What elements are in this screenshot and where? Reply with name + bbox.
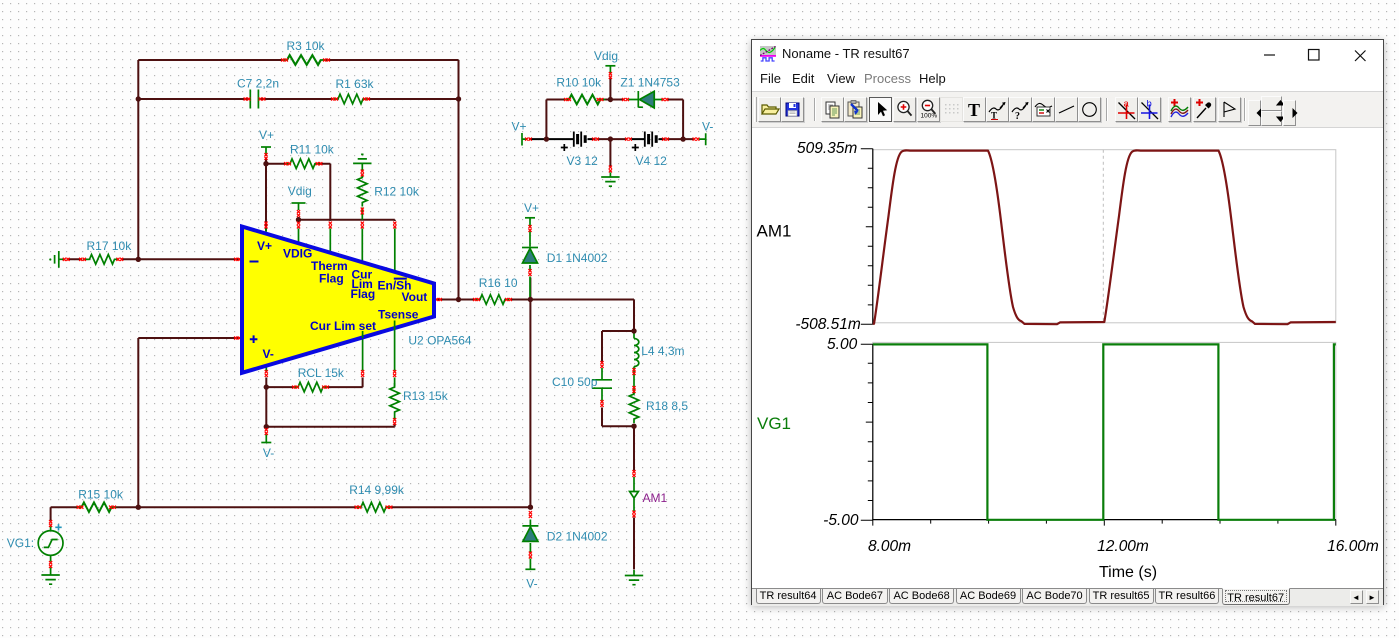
svg-text:AM1: AM1	[643, 491, 668, 505]
svg-text:Z1 1N4753: Z1 1N4753	[620, 76, 680, 90]
svg-text:Vdig: Vdig	[594, 49, 618, 63]
svg-text:8.00m: 8.00m	[868, 538, 911, 555]
svg-text:Tsense: Tsense	[378, 308, 419, 322]
svg-text:R16 10: R16 10	[479, 276, 518, 290]
svg-text:D1 1N4002: D1 1N4002	[547, 251, 608, 265]
svg-text:R3 10k: R3 10k	[287, 39, 326, 53]
svg-text:5.00: 5.00	[827, 336, 858, 353]
svg-text:Flag: Flag	[319, 272, 344, 286]
svg-text:R14 9,99k: R14 9,99k	[349, 483, 405, 497]
svg-text:R18 8,5: R18 8,5	[646, 399, 688, 413]
svg-text:R17 10k: R17 10k	[87, 239, 133, 253]
svg-text:V3 12: V3 12	[567, 154, 599, 168]
svg-text:V+: V+	[512, 119, 527, 133]
svg-text:509.35m: 509.35m	[797, 140, 857, 157]
svg-text:RCL 15k: RCL 15k	[298, 366, 345, 380]
svg-text:R15 10k: R15 10k	[78, 487, 124, 501]
svg-text:V-: V-	[702, 119, 713, 133]
svg-text:Time (s): Time (s)	[1099, 564, 1157, 581]
svg-text:16.00m: 16.00m	[1327, 538, 1379, 555]
svg-text:b: b	[1146, 99, 1151, 110]
svg-text:V-: V-	[263, 446, 274, 460]
svg-text:R11 10k: R11 10k	[290, 143, 335, 157]
svg-text:AM1: AM1	[757, 221, 792, 240]
svg-text:VG1: VG1	[757, 414, 791, 433]
svg-text:Vdig: Vdig	[288, 184, 312, 198]
svg-text:12.00m: 12.00m	[1097, 538, 1149, 555]
svg-text:R12 10k: R12 10k	[374, 185, 420, 199]
svg-text:V-: V-	[526, 577, 537, 591]
svg-text:R10 10k: R10 10k	[556, 76, 602, 90]
svg-text:Cur Lim set: Cur Lim set	[310, 319, 376, 333]
svg-text:V4 12: V4 12	[636, 154, 668, 168]
svg-text:L4 4,3m: L4 4,3m	[641, 344, 684, 358]
svg-text:C10 50p: C10 50p	[552, 375, 598, 389]
svg-text:?: ?	[1015, 111, 1020, 121]
svg-text:V+: V+	[259, 128, 274, 142]
svg-text:VDIG: VDIG	[283, 247, 312, 261]
svg-text:R1 63k: R1 63k	[336, 77, 375, 91]
svg-text:Vout: Vout	[402, 290, 428, 304]
svg-text:V+: V+	[524, 201, 539, 215]
svg-text:T: T	[968, 100, 980, 120]
svg-text:V+: V+	[257, 239, 272, 253]
svg-text:U2 OPA564: U2 OPA564	[408, 334, 471, 348]
svg-text:V-: V-	[263, 347, 274, 361]
svg-text:100%: 100%	[920, 113, 937, 120]
svg-text:-508.51m: -508.51m	[795, 316, 861, 333]
svg-text:C7 2,2n: C7 2,2n	[237, 77, 279, 91]
svg-text:-5.00: -5.00	[823, 512, 859, 529]
svg-text:Flag: Flag	[351, 287, 376, 301]
svg-text:D2 1N4002: D2 1N4002	[547, 530, 608, 544]
svg-text:R13 15k: R13 15k	[403, 389, 449, 403]
svg-text:VG1:: VG1:	[7, 536, 34, 550]
svg-text:a: a	[1123, 99, 1129, 110]
